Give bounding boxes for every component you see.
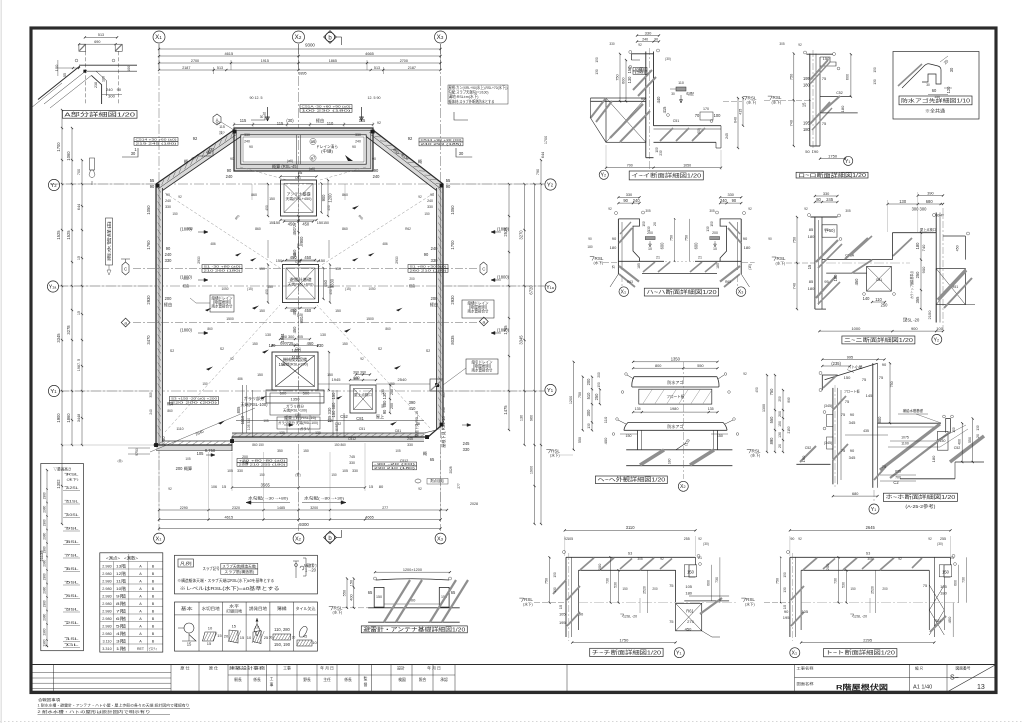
svg-text:(15): (15) <box>295 413 301 417</box>
section I-I bottom dims <box>606 167 721 169</box>
svg-text:92: 92 <box>377 121 381 125</box>
svg-text:経由: 経由 <box>316 117 324 123</box>
svg-text:200: 200 <box>242 455 248 459</box>
svg-text:300: 300 <box>586 409 591 417</box>
section Ro-Ro RSL <box>768 96 772 100</box>
svg-text:150: 150 <box>303 449 309 453</box>
svg-text:960: 960 <box>530 415 534 421</box>
svg-text:<測点>: <測点> <box>106 554 121 560</box>
svg-text:450: 450 <box>755 387 759 393</box>
svg-text:500: 500 <box>303 391 310 396</box>
svg-text:110: 110 <box>678 81 684 85</box>
svg-text:12SL -20: 12SL -20 <box>903 318 920 323</box>
grid line Y2 <box>50 183 545 185</box>
svg-text:カラトップ舗装基準点: カラトップ舗装基準点 <box>909 271 914 299</box>
svg-text:承認: 承認 <box>440 677 448 682</box>
top dimension row 2187/513 <box>159 69 441 71</box>
section Ni-Ni top dims <box>815 195 838 197</box>
svg-text:486: 486 <box>210 242 216 246</box>
title block vertical dividers <box>53 665 55 692</box>
section Chi-Chi inner dims <box>610 557 612 602</box>
svg-text:150: 150 <box>269 197 275 201</box>
grid diamond b bottom <box>324 531 337 544</box>
svg-text:330: 330 <box>244 133 250 137</box>
svg-text:750: 750 <box>684 235 688 241</box>
section Ro-Ro left dims <box>793 54 795 147</box>
svg-text:130: 130 <box>587 423 591 428</box>
grid circle Y1a left <box>47 281 58 292</box>
svg-text:C81: C81 <box>876 278 883 282</box>
elevation He-He legs <box>637 430 639 450</box>
svg-text:90: 90 <box>352 145 356 149</box>
svg-text:92: 92 <box>360 357 364 361</box>
level list table tall box <box>41 464 84 651</box>
svg-text:180: 180 <box>744 245 751 250</box>
svg-text:1945: 1945 <box>332 377 342 382</box>
svg-text:誘発目地: 誘発目地 <box>249 605 267 611</box>
svg-text:90: 90 <box>446 184 451 189</box>
svg-text:15: 15 <box>240 635 245 640</box>
svg-text:75: 75 <box>841 412 846 417</box>
svg-text:245: 245 <box>826 197 834 202</box>
svg-text:255: 255 <box>940 537 946 541</box>
svg-text:10: 10 <box>208 626 213 631</box>
svg-text:800: 800 <box>877 416 882 424</box>
svg-text:2.980: 2.980 <box>102 617 111 621</box>
svg-text:1 耐水水槽・避雷針・アンテナ・ハト小屋・屋上歩般の各々の天: 1 耐水水槽・避雷針・アンテナ・ハト小屋・屋上歩般の各々の天端 設計図内で確認有… <box>38 703 190 708</box>
small arrow marks bottom plan <box>284 424 293 427</box>
svg-text:2295: 2295 <box>863 637 873 642</box>
svg-text:X3: X3 <box>437 34 444 41</box>
svg-text:725: 725 <box>293 223 297 229</box>
section Chi-Chi top dim <box>565 529 696 531</box>
svg-text:219 245 (180): 219 245 (180) <box>136 142 177 146</box>
svg-text:工事名称: 工事名称 <box>797 666 814 671</box>
section Ni-Ni middle slabs <box>822 259 892 261</box>
svg-text:10: 10 <box>247 635 252 640</box>
slab hatch marks small triangles top walls <box>199 148 213 156</box>
level list dim line <box>46 470 48 646</box>
section Ni-Ni label box <box>842 336 915 344</box>
svg-text:300: 300 <box>108 94 115 99</box>
svg-text:150: 150 <box>627 66 632 74</box>
svg-text:6階: 6階 <box>116 616 126 621</box>
svg-text:860: 860 <box>385 327 391 331</box>
svg-text:90: 90 <box>117 87 122 92</box>
svg-text:2.980: 2.980 <box>102 587 111 591</box>
svg-text:水勾配(→30→+80): 水勾配(→30→+80) <box>248 495 289 501</box>
svg-text:検図: 検図 <box>398 677 406 682</box>
svg-text:21: 21 <box>950 556 954 560</box>
svg-text:92: 92 <box>608 207 612 211</box>
svg-text:2028: 2028 <box>470 502 478 506</box>
svg-text:330: 330 <box>431 258 439 263</box>
svg-text:330: 330 <box>427 205 433 209</box>
svg-text:1485: 1485 <box>277 506 285 510</box>
section I-I drawing <box>645 52 647 158</box>
svg-text:12SL: 12SL <box>67 486 79 490</box>
svg-text:C81: C81 <box>356 416 364 421</box>
svg-text:4615: 4615 <box>224 514 233 519</box>
svg-text:S−: S− <box>950 675 959 682</box>
svg-text:90 12. 5: 90 12. 5 <box>250 96 263 100</box>
svg-text:740: 740 <box>921 244 926 251</box>
svg-text:600: 600 <box>954 580 958 586</box>
svg-text:92: 92 <box>230 357 234 361</box>
plan left chamfer wall band <box>156 130 234 184</box>
svg-text:1500: 1500 <box>366 317 374 321</box>
svg-text:150: 150 <box>335 309 341 313</box>
roof hatch dims <box>350 379 376 381</box>
svg-text:330: 330 <box>407 443 413 447</box>
legend icon: yuhatsu shield <box>254 624 260 636</box>
machine vent pedestal <box>266 390 324 403</box>
section Ho-Ho pigeon hut roof diagonal <box>825 363 878 380</box>
svg-text:経由: 経由 <box>409 283 415 288</box>
svg-text:860 150: 860 150 <box>252 443 264 447</box>
svg-text:150: 150 <box>323 221 329 225</box>
svg-text:150: 150 <box>252 342 258 346</box>
svg-text:150: 150 <box>710 221 714 226</box>
section I-I label box <box>629 171 703 180</box>
A-part hatched column right <box>115 44 122 51</box>
svg-text:C51: C51 <box>295 347 301 351</box>
svg-text:100: 100 <box>127 66 131 72</box>
legend icon: tile teardrop <box>299 626 307 637</box>
svg-text:2700: 2700 <box>191 59 199 63</box>
between-bases tick dims <box>298 216 300 265</box>
section Ha-Ha slab hatches <box>643 262 655 272</box>
svg-text:635: 635 <box>895 470 901 474</box>
section Ni-Ni bottom dims <box>819 330 943 332</box>
svg-text:200: 200 <box>165 296 173 301</box>
svg-text:20: 20 <box>653 222 657 226</box>
svg-text:8035: 8035 <box>450 335 455 345</box>
svg-text:730: 730 <box>834 578 838 584</box>
svg-text:C51: C51 <box>295 176 301 180</box>
left narrow label box on wall <box>106 218 113 265</box>
svg-text:200: 200 <box>597 563 602 570</box>
svg-text:750: 750 <box>616 74 620 80</box>
section I-I top cap <box>631 53 653 55</box>
svg-text:75: 75 <box>879 375 884 380</box>
section To-To grid circle X1 <box>790 648 800 658</box>
section I-I RSL mark <box>743 96 747 100</box>
grid circle X3 bottom <box>435 533 446 544</box>
section Chi-Chi left dim <box>549 557 551 602</box>
svg-text:120: 120 <box>946 86 951 94</box>
svg-text:255: 255 <box>684 537 690 541</box>
svg-text:240 293 (185): 240 293 (185) <box>421 142 462 146</box>
svg-text:410: 410 <box>409 406 417 411</box>
svg-text:天端(RSL+600): 天端(RSL+600) <box>288 282 314 287</box>
svg-text:115: 115 <box>219 125 225 129</box>
section Ha-Ha center slab <box>640 260 665 262</box>
wall corner dots <box>156 184 160 188</box>
svg-text:330: 330 <box>355 133 361 137</box>
svg-text:X2: X2 <box>295 34 302 41</box>
svg-text:277: 277 <box>382 506 388 510</box>
svg-text:2150: 2150 <box>787 426 791 433</box>
svg-text:55: 55 <box>446 178 451 183</box>
grid circle Y2 right <box>545 179 556 190</box>
svg-text:440: 440 <box>656 96 661 104</box>
svg-text:600: 600 <box>694 242 699 250</box>
antenna foundation right pedestal <box>439 587 449 607</box>
extra dim ticks top box <box>234 124 373 126</box>
hexagon A mark top <box>213 114 221 125</box>
svg-text:6SL: 6SL <box>67 567 79 571</box>
svg-text:550: 550 <box>968 437 972 443</box>
svg-text:1200×1200: 1200×1200 <box>403 568 422 572</box>
section Ho-Ho top dims <box>822 359 884 361</box>
svg-text:7SL: 7SL <box>67 554 79 558</box>
grid circle Y1a right <box>545 282 556 293</box>
svg-text:1050: 1050 <box>368 287 375 291</box>
svg-text:図面番号: 図面番号 <box>956 665 971 671</box>
svg-text:ガラリ部分 天端(RSL-100): ガラリ部分 天端(RSL-100) <box>278 420 318 425</box>
svg-text:450: 450 <box>947 616 952 623</box>
svg-text:5階: 5階 <box>116 623 126 628</box>
svg-text:245: 245 <box>463 441 471 446</box>
svg-text:90: 90 <box>743 236 748 241</box>
svg-text:R63: R63 <box>627 280 633 284</box>
svg-text:150: 150 <box>873 67 877 73</box>
svg-text:R62: R62 <box>405 227 411 231</box>
svg-text:195: 195 <box>803 120 811 125</box>
A-part detail drawing <box>85 36 117 38</box>
svg-text:150: 150 <box>342 342 348 346</box>
svg-text:ニ~ニ断面詳細図1/20: ニ~ニ断面詳細図1/20 <box>844 336 913 344</box>
svg-text:イ~イ断面詳細図1/20: イ~イ断面詳細図1/20 <box>631 172 701 180</box>
section To-To right X braces <box>929 585 944 610</box>
svg-text:900: 900 <box>921 266 926 273</box>
svg-text:190: 190 <box>812 149 819 154</box>
svg-text:スラブ記号: スラブ記号 <box>203 566 220 571</box>
svg-text:C512: C512 <box>348 437 356 441</box>
svg-text:150: 150 <box>783 572 787 578</box>
section Ho-Ho grid circle Y1 <box>869 504 879 514</box>
section Chi-Chi slab hatches <box>580 558 594 570</box>
machine vent top dims <box>272 345 318 347</box>
svg-text:(水下): (水下) <box>67 477 79 482</box>
svg-text:(50): (50) <box>697 128 701 134</box>
svg-text:92: 92 <box>928 537 932 541</box>
plan left wall band <box>155 184 157 445</box>
section To-To left wall <box>789 557 791 637</box>
svg-text:200: 200 <box>652 587 658 591</box>
svg-text:100: 100 <box>54 64 59 71</box>
svg-text:600: 600 <box>622 77 626 83</box>
svg-text:90: 90 <box>424 252 429 257</box>
svg-text:1980: 1980 <box>670 407 679 411</box>
svg-text:野長: 野長 <box>303 677 311 682</box>
svg-text:150: 150 <box>844 375 851 380</box>
svg-text:(30): (30) <box>639 67 643 73</box>
svg-text:3448: 3448 <box>77 414 81 422</box>
svg-text:350: 350 <box>277 449 283 453</box>
elevation He-He slope mark <box>676 443 686 450</box>
svg-text:180: 180 <box>668 459 672 465</box>
svg-text:合戦図事項: 合戦図事項 <box>38 697 60 702</box>
svg-text:天端(RSL+100): 天端(RSL+100) <box>283 408 307 413</box>
section I-I left roof slab with X brace <box>606 98 646 142</box>
svg-text:450: 450 <box>956 245 960 251</box>
A-part hatched column left <box>79 44 86 51</box>
svg-text:150: 150 <box>597 382 601 388</box>
svg-text:4SL: 4SL <box>67 594 79 598</box>
svg-text:ガラリ: ガラリ <box>300 426 310 431</box>
svg-text:ピロティ: ピロティ <box>149 646 158 651</box>
svg-text:2150: 2150 <box>927 310 932 320</box>
svg-text:180: 180 <box>808 234 815 239</box>
svg-text:3565: 3565 <box>261 482 271 487</box>
svg-text:130: 130 <box>627 76 632 84</box>
section mark C left <box>122 262 129 275</box>
svg-text:135: 135 <box>708 407 714 411</box>
svg-text:200: 200 <box>712 231 718 235</box>
svg-text:90 40: 90 40 <box>936 214 944 218</box>
svg-text:110: 110 <box>603 416 608 423</box>
svg-text:R63: R63 <box>725 280 731 284</box>
svg-text:790: 790 <box>536 169 540 175</box>
svg-text:2980: 2980 <box>42 613 46 620</box>
svg-text:30: 30 <box>926 83 930 87</box>
svg-text:<測数>: <測数> <box>124 554 139 560</box>
drain note box right top <box>462 300 494 318</box>
svg-text:405: 405 <box>297 335 303 339</box>
svg-text:建築設計事務: 建築設計事務 <box>229 665 265 670</box>
svg-text:150: 150 <box>823 56 830 61</box>
svg-text:2980: 2980 <box>42 492 46 499</box>
svg-text:150: 150 <box>331 410 336 418</box>
right small level arrows <box>491 230 501 233</box>
svg-text:680: 680 <box>852 492 858 496</box>
antenna foundation label box <box>361 626 467 633</box>
svg-text:避雷針基礎: 避雷針基礎 <box>290 277 312 282</box>
svg-text:92: 92 <box>660 557 664 561</box>
svg-text:15: 15 <box>217 633 222 638</box>
svg-text:150, 190: 150, 190 <box>274 642 291 647</box>
svg-text:90: 90 <box>230 157 234 161</box>
svg-text:890: 890 <box>769 437 774 445</box>
svg-text:13: 13 <box>977 684 985 691</box>
section mark a left <box>121 318 130 327</box>
svg-text:345: 345 <box>849 420 856 425</box>
section Ha-Ha left wall <box>618 219 639 261</box>
svg-text:1050: 1050 <box>683 164 691 168</box>
section To-To label box <box>824 649 897 657</box>
svg-text:805: 805 <box>335 425 339 431</box>
section I-I right slab <box>654 125 722 127</box>
right extension ticks <box>446 183 545 185</box>
svg-text:92: 92 <box>564 537 568 541</box>
svg-text:330: 330 <box>609 42 615 46</box>
svg-text:460: 460 <box>307 341 315 346</box>
svg-text:250: 250 <box>778 396 782 401</box>
svg-text:730: 730 <box>606 578 610 584</box>
svg-text:80: 80 <box>816 197 821 202</box>
svg-text:730: 730 <box>715 577 719 583</box>
svg-text:経由: 経由 <box>430 301 438 307</box>
svg-text:750: 750 <box>545 578 549 584</box>
svg-text:110: 110 <box>327 121 334 126</box>
svg-text:80: 80 <box>379 484 384 489</box>
svg-text:75: 75 <box>845 399 850 404</box>
bottom dim row 4615 4665 <box>159 519 441 521</box>
svg-text:2028: 2028 <box>449 466 453 473</box>
svg-text:200: 200 <box>825 563 830 570</box>
section Ha-Ha drain boxes <box>645 237 655 240</box>
svg-text:2320: 2320 <box>232 506 240 510</box>
antenna foundation ground lines <box>368 607 460 609</box>
svg-text:30: 30 <box>260 115 264 119</box>
svg-text:240: 240 <box>149 409 153 415</box>
svg-text:105: 105 <box>197 451 205 456</box>
svg-text:450: 450 <box>302 221 310 226</box>
svg-text:90: 90 <box>374 168 379 173</box>
svg-text:600: 600 <box>846 74 850 80</box>
svg-text:1944: 1944 <box>280 333 285 343</box>
plan right wall band <box>442 184 444 424</box>
svg-text:照合: 照合 <box>419 677 427 682</box>
svg-text:330: 330 <box>237 469 243 473</box>
plan interior center dash-dot vertical <box>298 171 300 390</box>
svg-text:21: 21 <box>698 256 702 260</box>
svg-text:415: 415 <box>662 106 667 114</box>
page bottom edge dotted artifact <box>0 721 1024 723</box>
svg-text:雨水管接合せ: 雨水管接合せ <box>212 303 233 309</box>
svg-text:860: 860 <box>255 227 261 231</box>
svg-text:2645: 2645 <box>866 525 876 530</box>
svg-text:雨水管接合せ: 雨水管接合せ <box>472 367 493 373</box>
svg-text:※全共通: ※全共通 <box>925 108 946 115</box>
svg-text:13階: 13階 <box>116 563 126 568</box>
svg-text:105: 105 <box>801 609 808 614</box>
svg-text:85: 85 <box>809 279 814 284</box>
svg-text:100: 100 <box>714 113 722 118</box>
svg-text:2980: 2980 <box>42 586 46 593</box>
section Ho-Ho wall notches <box>827 415 833 427</box>
svg-text:1475: 1475 <box>503 405 508 415</box>
level list entries <box>65 473 68 476</box>
svg-text:130: 130 <box>706 226 710 231</box>
svg-text:屋根下見 RSL-16: 屋根下見 RSL-16 <box>440 416 446 448</box>
svg-text:2930: 2930 <box>197 256 201 264</box>
svg-text:180: 180 <box>931 455 936 462</box>
antenna foundation hatch diagonals <box>384 580 410 622</box>
svg-text:(30): (30) <box>703 542 709 546</box>
svg-text:凡例: 凡例 <box>180 560 192 566</box>
svg-text:92: 92 <box>743 372 747 376</box>
svg-text:(15): (15) <box>247 287 253 291</box>
grid circle X2 top <box>293 31 305 43</box>
svg-text:3895: 3895 <box>298 72 306 76</box>
svg-text:12. 5 90: 12. 5 90 <box>368 96 381 100</box>
svg-text:250: 250 <box>594 393 599 401</box>
svg-text:(水下): (水下) <box>594 260 604 265</box>
svg-text:130: 130 <box>269 343 277 348</box>
level box S3 bottom left <box>170 397 219 401</box>
svg-text:92: 92 <box>898 557 902 561</box>
svg-text:1000: 1000 <box>851 326 861 331</box>
svg-text:150: 150 <box>327 373 333 377</box>
svg-text:900: 900 <box>321 194 326 202</box>
svg-text:65: 65 <box>416 422 420 426</box>
grid circle X1 bottom <box>154 533 165 544</box>
section I-I dims top <box>637 35 659 37</box>
svg-text:55: 55 <box>150 178 155 183</box>
